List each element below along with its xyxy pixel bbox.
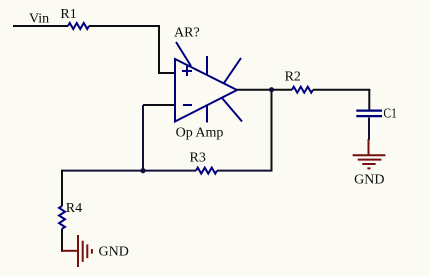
svg-text:GND: GND [99, 244, 129, 259]
resistor R3 [196, 168, 217, 174]
capacitor C1 [356, 111, 382, 117]
wire C1 to ground [368, 118, 370, 141]
svg-text:C1: C1 [383, 106, 397, 121]
op-amp V- pin vertical bottom [206, 105, 208, 123]
label GND bottom-left [99, 244, 129, 259]
resistor R2 [292, 87, 313, 93]
svg-text:R1: R1 [60, 7, 76, 22]
wire inverting input down to feedback node [142, 105, 144, 171]
svg-text:R2: R2 [285, 70, 301, 85]
label R3 [190, 150, 206, 165]
wire feedback right segment [217, 170, 273, 172]
op-amp plus sign [182, 66, 192, 76]
label R2 [285, 70, 301, 85]
wire corner down to + input [159, 26, 175, 73]
resistor R1 [68, 23, 89, 29]
node feedback junction [140, 168, 145, 173]
svg-text:Vin: Vin [29, 12, 49, 27]
wire inverting input [143, 104, 175, 106]
node output junction [269, 87, 274, 92]
label Op Amp [176, 126, 224, 141]
op-amp V+ pin vertical top [206, 56, 208, 75]
wire R2 to corner [313, 89, 370, 91]
wire R4 to ground [61, 229, 63, 252]
svg-text:R4: R4 [66, 201, 82, 216]
svg-text:Op Amp: Op Amp [176, 126, 224, 141]
net label Vin [29, 12, 49, 27]
wire op-amp output [237, 89, 292, 91]
wire Vin to R1 [13, 25, 68, 27]
label AR? designator [174, 25, 200, 40]
label R4 [66, 201, 82, 216]
label R1 [60, 7, 76, 22]
op-amp offset pin top-right diagonal [224, 58, 241, 83]
svg-text:R3: R3 [190, 150, 206, 165]
wire corner down to C1 [368, 90, 370, 111]
svg-text:GND: GND [354, 173, 384, 188]
op-amp offset pin bottom-right diagonal [222, 98, 242, 122]
resistor R4 [59, 206, 65, 229]
op-amp minus sign [183, 104, 192, 106]
label C1 [383, 106, 397, 121]
op-amp NC pin top-left diagonal [176, 42, 191, 66]
ground GND right (earth) [353, 139, 386, 168]
wire left vertical to R4 [61, 170, 63, 206]
label GND right [354, 173, 384, 188]
op-amp U1 triangle [175, 59, 237, 122]
wire feedback left segment [62, 170, 196, 172]
wire output node down to feedback [271, 90, 273, 171]
svg-text:AR?: AR? [174, 25, 200, 40]
wire R1 to corner [89, 25, 160, 27]
ground GND bottom-left (earth, pointing right) [62, 235, 92, 267]
